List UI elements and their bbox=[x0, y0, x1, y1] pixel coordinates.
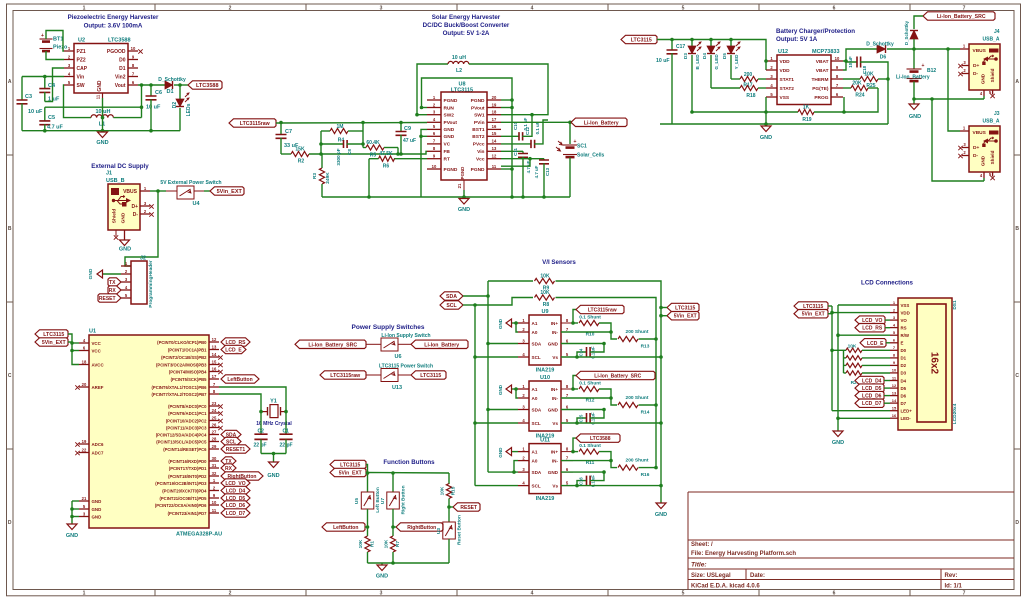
svg-text:RX: RX bbox=[109, 288, 117, 294]
U12 pin 6 PROG bbox=[814, 92, 843, 101]
svg-text:16x2: 16x2 bbox=[929, 352, 940, 375]
svg-text:(PCINT19/OC2B/INT1)PD3: (PCINT19/OC2B/INT1)PD3 bbox=[155, 481, 207, 486]
junction RESET node bbox=[447, 505, 451, 509]
junction R/W gnd bbox=[836, 333, 840, 337]
J2 pin 2 bbox=[121, 269, 131, 274]
svg-text:INA219: INA219 bbox=[536, 368, 555, 374]
svg-text:LCD_D6: LCD_D6 bbox=[226, 503, 246, 509]
svg-text:15: 15 bbox=[492, 131, 497, 136]
svg-text:B: B bbox=[1015, 226, 1019, 232]
svg-text:7: 7 bbox=[963, 5, 966, 11]
U1 pin 1 PD3 bbox=[155, 478, 219, 486]
LED D2 bbox=[172, 85, 192, 131]
svg-text:VC: VC bbox=[444, 142, 451, 148]
U2 pin 6 Vout bbox=[115, 80, 138, 89]
DS1 pin 4 RS bbox=[890, 322, 907, 330]
wire U11 SCL bus connect bbox=[475, 485, 518, 487]
wire left column C3 bbox=[21, 77, 23, 101]
svg-text:Vin2: Vin2 bbox=[115, 74, 126, 80]
svg-text:J3: J3 bbox=[994, 111, 1000, 117]
svg-text:GND: GND bbox=[92, 507, 102, 512]
junction R5 drop bbox=[396, 152, 400, 156]
svg-text:J4: J4 bbox=[994, 29, 1000, 35]
global label LTC3115raw switch input bbox=[320, 371, 366, 379]
svg-text:SCL: SCL bbox=[446, 303, 457, 309]
junction U9 Vs column bbox=[659, 355, 663, 359]
svg-text:C: C bbox=[1015, 373, 1019, 379]
global label LCD_RS bbox=[855, 324, 885, 332]
svg-text:D_Schottky: D_Schottky bbox=[904, 20, 909, 45]
wire SDA pullup top bbox=[488, 280, 533, 282]
svg-text:U5: U5 bbox=[354, 498, 360, 504]
junction D2 branch bbox=[178, 83, 182, 87]
capacitor C13 4.7uF bbox=[501, 159, 550, 197]
global label LCD_E bbox=[221, 345, 246, 353]
svg-text:LEDs: LEDs bbox=[186, 103, 192, 116]
svg-text:D4: D4 bbox=[901, 378, 907, 383]
global label 5Vin_EXT buttons bbox=[330, 468, 366, 476]
svg-text:Output: 5V 1A: Output: 5V 1A bbox=[776, 36, 818, 43]
svg-text:L2: L2 bbox=[456, 68, 462, 74]
global label LTC3115 sensors supply bbox=[667, 303, 699, 311]
U1 pin 4 VCC bbox=[79, 338, 102, 346]
svg-text:32: 32 bbox=[212, 471, 217, 476]
svg-text:(PCINT21/OC0B/T1)PD5: (PCINT21/OC0B/T1)PD5 bbox=[159, 496, 207, 501]
svg-text:IN+: IN+ bbox=[551, 321, 559, 326]
svg-text:R7: R7 bbox=[395, 541, 401, 547]
capacitor C17 10uF bbox=[656, 40, 685, 125]
svg-text:GND: GND bbox=[97, 80, 103, 92]
svg-text:GND: GND bbox=[548, 470, 559, 475]
resistor R4 1M bbox=[321, 124, 363, 144]
svg-text:GND: GND bbox=[498, 384, 503, 395]
junction battery bottom bbox=[912, 97, 916, 101]
svg-text:LTC3115: LTC3115 bbox=[43, 332, 64, 338]
svg-text:R5: R5 bbox=[370, 153, 377, 159]
svg-text:Function Buttons: Function Buttons bbox=[383, 459, 435, 466]
U1 pin 24 PC1 bbox=[168, 408, 219, 416]
svg-text:22: 22 bbox=[82, 447, 87, 452]
wire U10 SDA bus connect bbox=[488, 409, 518, 411]
svg-text:(PCINT16/RXD)PD0: (PCINT16/RXD)PD0 bbox=[168, 459, 207, 464]
svg-text:J1: J1 bbox=[106, 171, 112, 177]
ground GND buttons bbox=[376, 563, 388, 580]
svg-text:R6: R6 bbox=[383, 164, 390, 170]
junction C10-SW1 bbox=[530, 113, 534, 117]
J2 pin 3 bbox=[121, 277, 131, 282]
svg-text:0.1 uF: 0.1 uF bbox=[535, 121, 540, 134]
junction SDA bus bbox=[486, 294, 490, 298]
U10 pin 7 IN- stub bbox=[561, 393, 573, 398]
svg-text:LTC3588: LTC3588 bbox=[108, 38, 131, 44]
U12 pin 5 VSS bbox=[766, 92, 790, 101]
J1 pin 2 D- no-connect bbox=[133, 209, 154, 218]
junction U10 SCL bus bbox=[473, 421, 477, 425]
svg-text:A: A bbox=[1015, 79, 1019, 85]
global label LCD_E bbox=[860, 339, 886, 347]
global label Li-Ion_Battery_SRC bbox=[573, 376, 576, 390]
svg-text:14: 14 bbox=[492, 139, 497, 144]
wire VBAT risers bbox=[843, 49, 877, 61]
U10 pin 5 Vs stub bbox=[561, 418, 573, 423]
ground rail piezo y130.7 bbox=[22, 130, 180, 132]
svg-text:(PCINT10/ADC2)PC2: (PCINT10/ADC2)PC2 bbox=[166, 418, 207, 423]
svg-text:200 Shunt: 200 Shunt bbox=[626, 458, 649, 464]
global label LTC3588 bbox=[573, 438, 576, 452]
U2 pin 8 D1 bbox=[119, 63, 138, 72]
wire U10 GND pin net bbox=[561, 409, 604, 411]
capacitor C1 bbox=[279, 412, 292, 454]
global label LCD_VO bbox=[221, 479, 250, 487]
junction pin20 bbox=[510, 98, 514, 102]
svg-text:11: 11 bbox=[212, 508, 217, 513]
junction gnd2 bbox=[70, 515, 74, 519]
junction VCC1 bbox=[70, 341, 74, 345]
wire LCD_D5 bbox=[884, 387, 890, 389]
svg-text:(PCINT23/AIN1)PD7: (PCINT23/AIN1)PD7 bbox=[168, 511, 208, 516]
U1 pin 17 PB5 bbox=[171, 374, 219, 382]
display DS1 16x2 LCD body bbox=[898, 298, 958, 430]
U8 pin 16 BST1 bbox=[472, 124, 501, 133]
junction C17 bbox=[670, 38, 674, 42]
svg-text:0.1 Shunt: 0.1 Shunt bbox=[579, 443, 601, 449]
svg-text:SW2: SW2 bbox=[444, 113, 455, 119]
svg-text:22 pF: 22 pF bbox=[254, 443, 267, 449]
junction U10 A0 gnd bbox=[514, 387, 518, 391]
svg-text:GND: GND bbox=[760, 135, 772, 141]
junction C9 tap bbox=[399, 121, 403, 125]
svg-text:Vs: Vs bbox=[552, 483, 558, 488]
global label LCD_D5 bbox=[855, 384, 884, 392]
svg-text:DC/DC Buck/Boost Converter: DC/DC Buck/Boost Converter bbox=[423, 22, 510, 29]
svg-text:Vs: Vs bbox=[552, 421, 558, 426]
ground GND crystal bbox=[267, 454, 279, 480]
junction L1 pin11 cross bbox=[101, 116, 105, 120]
resistor R20 pullup D1 bbox=[844, 356, 891, 360]
svg-text:VO: VO bbox=[901, 318, 908, 323]
wire feed U5 bbox=[367, 473, 369, 492]
svg-text:VBAT: VBAT bbox=[816, 59, 829, 65]
wire U9 GND pin net bbox=[561, 343, 604, 345]
J2 pin 1 bbox=[121, 261, 131, 266]
junction gnd1 bbox=[70, 507, 74, 511]
wire U9 A0 tie to gnd bbox=[516, 323, 518, 332]
svg-text:PZ1: PZ1 bbox=[77, 49, 86, 55]
wire label RESET bbox=[449, 506, 453, 508]
wire feed U7 bbox=[392, 473, 394, 492]
svg-text:Piezoelectric Energy Harvester: Piezoelectric Energy Harvester bbox=[68, 14, 159, 21]
svg-text:19: 19 bbox=[492, 102, 497, 107]
wire U11 Vs supply bbox=[561, 485, 661, 487]
svg-text:USB_A: USB_A bbox=[983, 119, 1000, 125]
svg-text:(PCINT14/RESET)PC6: (PCINT14/RESET)PC6 bbox=[163, 447, 207, 452]
svg-text:LTC3588: LTC3588 bbox=[196, 83, 219, 89]
svg-text:5: 5 bbox=[682, 591, 685, 597]
junction U10 Vs column bbox=[659, 421, 663, 425]
junction battery top bbox=[912, 47, 916, 51]
junction VDD supply bbox=[830, 311, 834, 315]
svg-text:Li-Ion_Battery: Li-Ion_Battery bbox=[424, 342, 459, 348]
svg-text:10: 10 bbox=[212, 500, 217, 505]
U8 pin 14 PVcc bbox=[473, 139, 501, 148]
svg-text:STAT1: STAT1 bbox=[780, 77, 795, 83]
capacitor C3 bbox=[17, 94, 44, 115]
svg-text:D-: D- bbox=[973, 71, 978, 77]
U12 pin 9 VBAT bbox=[816, 65, 843, 74]
junction U9 A0 gnd bbox=[514, 321, 518, 325]
svg-text:D2: D2 bbox=[172, 102, 178, 109]
U1 pin 8 PB7 bbox=[152, 389, 220, 397]
svg-text:10K: 10K bbox=[358, 539, 364, 548]
wire L2 leg to pin3 bbox=[417, 114, 427, 116]
ground GND battery bbox=[909, 99, 921, 120]
U8 pin 5 GND bbox=[427, 124, 455, 133]
svg-text:D2: D2 bbox=[901, 363, 907, 368]
svg-text:Piezo: Piezo bbox=[53, 45, 68, 51]
svg-text:(PCINT22/OC0A/AIN0)PD6: (PCINT22/OC0A/AIN0)PD6 bbox=[155, 503, 207, 508]
junction D3 rail1 bbox=[690, 110, 694, 114]
resistor R25 10K THERM bbox=[843, 72, 888, 90]
capacitor C5 bbox=[39, 107, 63, 131]
junction Vout-C6 bbox=[149, 83, 153, 87]
svg-text:C7: C7 bbox=[285, 129, 292, 135]
svg-text:29: 29 bbox=[212, 444, 217, 449]
resistor R8 10K bbox=[535, 290, 555, 308]
global label SDA bbox=[440, 292, 463, 300]
wire LED+ to supply bbox=[832, 410, 890, 412]
svg-text:10 uF: 10 uF bbox=[28, 109, 43, 115]
resistor R2 15K bbox=[281, 147, 309, 165]
U10 pin 3 SDA bbox=[518, 404, 559, 412]
svg-text:17: 17 bbox=[492, 117, 497, 122]
svg-text:D-: D- bbox=[973, 153, 978, 159]
svg-text:GND: GND bbox=[92, 499, 102, 504]
U12 pin 3 STAT1 bbox=[766, 74, 794, 83]
wire U9 SDA bus connect bbox=[488, 343, 518, 345]
junction SC1 tap bbox=[568, 121, 572, 125]
U1 pin 6 VCC bbox=[79, 345, 102, 353]
svg-text:1: 1 bbox=[83, 591, 86, 597]
svg-text:(PCINT11/ADC3)PC3: (PCINT11/ADC3)PC3 bbox=[166, 425, 207, 430]
svg-text:GND: GND bbox=[498, 318, 503, 329]
U9 pin 4 SCL bbox=[518, 352, 558, 360]
svg-text:BST1: BST1 bbox=[472, 127, 485, 133]
wire U9 Vs supply bbox=[561, 356, 661, 358]
svg-text:10 uF: 10 uF bbox=[848, 56, 853, 68]
global label LCD_D4 bbox=[221, 486, 250, 494]
U10 pin 8 IN+ stub bbox=[561, 384, 573, 389]
DS1 pin 15 LED+ bbox=[890, 406, 912, 414]
global label LCD_RS bbox=[221, 338, 250, 346]
svg-text:SDA: SDA bbox=[532, 470, 542, 475]
svg-text:AREF: AREF bbox=[92, 385, 104, 390]
svg-text:AVCC: AVCC bbox=[92, 362, 105, 367]
junction R7 rail bbox=[391, 561, 395, 565]
svg-text:V/I Sensors: V/I Sensors bbox=[542, 259, 576, 266]
wire U9 SCL bus connect bbox=[475, 356, 518, 358]
ground arrow at U10 pin1 bbox=[498, 384, 518, 395]
junction U10 cap right bbox=[602, 408, 606, 412]
DS1 pin 7 D0 bbox=[890, 345, 907, 353]
svg-text:6: 6 bbox=[833, 5, 836, 11]
svg-text:Li-Ion_Battery_SRC: Li-Ion_Battery_SRC bbox=[937, 14, 986, 20]
svg-text:23: 23 bbox=[212, 401, 217, 406]
junction C9 bottom bbox=[399, 152, 403, 156]
svg-text:Y_LED: Y_LED bbox=[734, 54, 739, 69]
diode D7 D_Schottky vertical bbox=[904, 16, 923, 49]
svg-text:D_Schottky: D_Schottky bbox=[158, 77, 186, 83]
svg-text:RightButton: RightButton bbox=[407, 525, 436, 531]
U11 pin 4 SCL bbox=[518, 480, 558, 488]
svg-text:(PCINT1/OC1A)PB1: (PCINT1/OC1A)PB1 bbox=[168, 347, 207, 352]
resistor R20 pullup D2 bbox=[844, 363, 891, 367]
svg-text:4.7 uF: 4.7 uF bbox=[534, 165, 539, 178]
DS1 pin 5 R/W bbox=[890, 330, 910, 338]
svg-text:R19: R19 bbox=[802, 117, 811, 123]
global label RX bbox=[221, 464, 236, 472]
svg-text:GND: GND bbox=[548, 341, 559, 346]
resistor R17 200 bbox=[731, 72, 766, 89]
svg-text:(PCINT5/SCK)PB5: (PCINT5/SCK)PB5 bbox=[171, 377, 208, 382]
svg-text:3: 3 bbox=[380, 5, 383, 11]
wire charger input rail bbox=[657, 40, 766, 71]
svg-text:Li-Ion_Battery: Li-Ion_Battery bbox=[584, 120, 619, 126]
svg-text:GND: GND bbox=[909, 114, 921, 120]
junction crystal left bbox=[259, 410, 263, 414]
svg-text:VBUS: VBUS bbox=[973, 48, 987, 54]
svg-text:60.4K: 60.4K bbox=[366, 140, 380, 146]
junction U9 IN+ node bbox=[571, 321, 575, 325]
svg-text:(PCINT20/XCK/T0)PD4: (PCINT20/XCK/T0)PD4 bbox=[162, 488, 207, 493]
wire Vout net bbox=[138, 84, 165, 86]
global label LTC3115raw bbox=[573, 310, 576, 324]
DS1 pin 13 D6 bbox=[890, 390, 907, 398]
svg-text:Li-Ion_Battery_SRC: Li-Ion_Battery_SRC bbox=[308, 342, 357, 348]
wire SCL bus vertical bbox=[474, 305, 476, 486]
svg-text:IN-: IN- bbox=[552, 330, 559, 335]
junction C6 rail bbox=[149, 129, 153, 133]
svg-text:D_Schottky: D_Schottky bbox=[866, 42, 894, 48]
no-connect at U1 pin 23 bbox=[218, 404, 222, 408]
svg-text:D7: D7 bbox=[901, 401, 907, 406]
junction x512 rail bbox=[510, 195, 514, 199]
svg-text:10: 10 bbox=[432, 164, 437, 169]
U1 pin 12 PB0 bbox=[157, 337, 219, 345]
global label LCD_D5 bbox=[221, 494, 250, 502]
wire L1 to Vout riser bbox=[113, 117, 141, 119]
svg-text:USB_B: USB_B bbox=[106, 178, 125, 184]
global label LTC3115 charger input bbox=[621, 35, 657, 43]
svg-text:C4: C4 bbox=[48, 83, 56, 89]
U2 pin 3 CAP bbox=[64, 63, 88, 72]
junction VBAT bbox=[844, 59, 848, 63]
connector J4 USB_A bbox=[958, 29, 1000, 98]
U2 pin 1 PZ1 bbox=[64, 46, 86, 55]
capacitor C10 0.1uF BST1 bbox=[501, 115, 532, 141]
junction D0 pullup feed bbox=[830, 349, 834, 353]
wire C3 to rail bbox=[21, 103, 23, 130]
U8 pin 9 RT bbox=[427, 154, 450, 163]
svg-text:SDA: SDA bbox=[446, 294, 457, 300]
wire U10 A0 tie to gnd bbox=[516, 389, 518, 398]
junction R3 top bbox=[319, 152, 323, 156]
resistor R10 0.1 Shunt bbox=[573, 315, 611, 338]
U8 pin 1 PGND bbox=[427, 95, 458, 104]
wire R8 to shunt column bbox=[556, 298, 657, 468]
U12 pin 1 VDD bbox=[766, 56, 790, 65]
svg-text:(PCINT17/TXD)PD1: (PCINT17/TXD)PD1 bbox=[169, 466, 207, 471]
wire loop leg to pin2 bbox=[422, 107, 428, 109]
DS1 pin 8 D1 bbox=[890, 353, 907, 361]
wire BT1+ to U2 pin1 bbox=[46, 31, 64, 52]
svg-text:(PCINT13/SCL/ADC5)PC5: (PCINT13/SCL/ADC5)PC5 bbox=[156, 439, 207, 444]
svg-text:14: 14 bbox=[212, 352, 217, 357]
DS1 pin 9 D2 bbox=[890, 360, 907, 368]
svg-text:VSS: VSS bbox=[901, 303, 910, 308]
svg-text:+: + bbox=[922, 63, 925, 69]
junction R16 column bbox=[654, 466, 658, 470]
svg-text:(PCINT2/OC1B/SS)PB2: (PCINT2/OC1B/SS)PB2 bbox=[161, 355, 207, 360]
J1 GND pin to ground bbox=[119, 230, 131, 253]
capacitor C7 bbox=[276, 123, 300, 155]
svg-text:10K: 10K bbox=[440, 486, 446, 495]
svg-text:CAP: CAP bbox=[77, 66, 88, 72]
svg-text:(PCINT18/INT0)PD2: (PCINT18/INT0)PD2 bbox=[168, 474, 207, 479]
global label Li-Ion_Battery_SRC charger bbox=[923, 12, 995, 20]
global label LTC3115 at U1 supply bbox=[35, 330, 68, 338]
svg-text:SDA: SDA bbox=[532, 407, 542, 412]
junction VSS rail1 bbox=[764, 110, 768, 114]
svg-text:11: 11 bbox=[492, 164, 497, 169]
U12 pin 7 PG(TE) bbox=[812, 83, 843, 92]
connector J2 programming header bbox=[131, 256, 154, 308]
wire pin19 stub to column bbox=[501, 107, 512, 109]
global label RX at J2 bbox=[108, 286, 121, 294]
U8 pin 8 FB bbox=[427, 146, 450, 155]
svg-text:A1: A1 bbox=[532, 449, 538, 454]
no-connect at U1 pin 14 bbox=[218, 355, 222, 359]
J1 pin 3 D+ no-connect bbox=[131, 201, 153, 210]
switch U4 5V external power switch bbox=[160, 180, 221, 207]
svg-text:LED+: LED+ bbox=[901, 409, 913, 414]
wire LCD gnd bus vertical bbox=[837, 305, 839, 431]
junction VBUS branch bbox=[156, 189, 160, 193]
U1 pin 20 AREF no-connect bbox=[75, 382, 103, 390]
junction Vcc-Vin bbox=[528, 157, 532, 161]
resistor R24 20K PG bbox=[843, 81, 878, 99]
svg-text:1 uF: 1 uF bbox=[48, 97, 60, 103]
U12 pin 4 STAT2 bbox=[766, 83, 794, 92]
junction D3 bbox=[690, 38, 694, 42]
svg-text:G_LED: G_LED bbox=[714, 54, 719, 70]
svg-text:D3: D3 bbox=[901, 371, 907, 376]
U1 pin 31 PD1 bbox=[169, 463, 219, 471]
svg-text:19: 19 bbox=[82, 439, 87, 444]
LED D3 B_LED bbox=[683, 40, 701, 113]
junction J3 gnd riser bbox=[930, 97, 934, 101]
title block bbox=[688, 492, 1014, 590]
svg-text:Output: 5V 1-2A: Output: 5V 1-2A bbox=[443, 30, 490, 37]
wire pin6 gnd stub bbox=[421, 135, 427, 137]
svg-text:STAT2: STAT2 bbox=[780, 86, 795, 92]
wire U7 to node bbox=[392, 509, 394, 527]
U9 pin 3 SDA bbox=[518, 338, 559, 346]
svg-text:A1: A1 bbox=[532, 387, 538, 392]
svg-text:PVin: PVin bbox=[474, 120, 485, 126]
global label 5Vin_EXT bbox=[210, 187, 244, 195]
global label LCD_VO bbox=[855, 316, 885, 324]
svg-text:D5: D5 bbox=[722, 53, 727, 59]
